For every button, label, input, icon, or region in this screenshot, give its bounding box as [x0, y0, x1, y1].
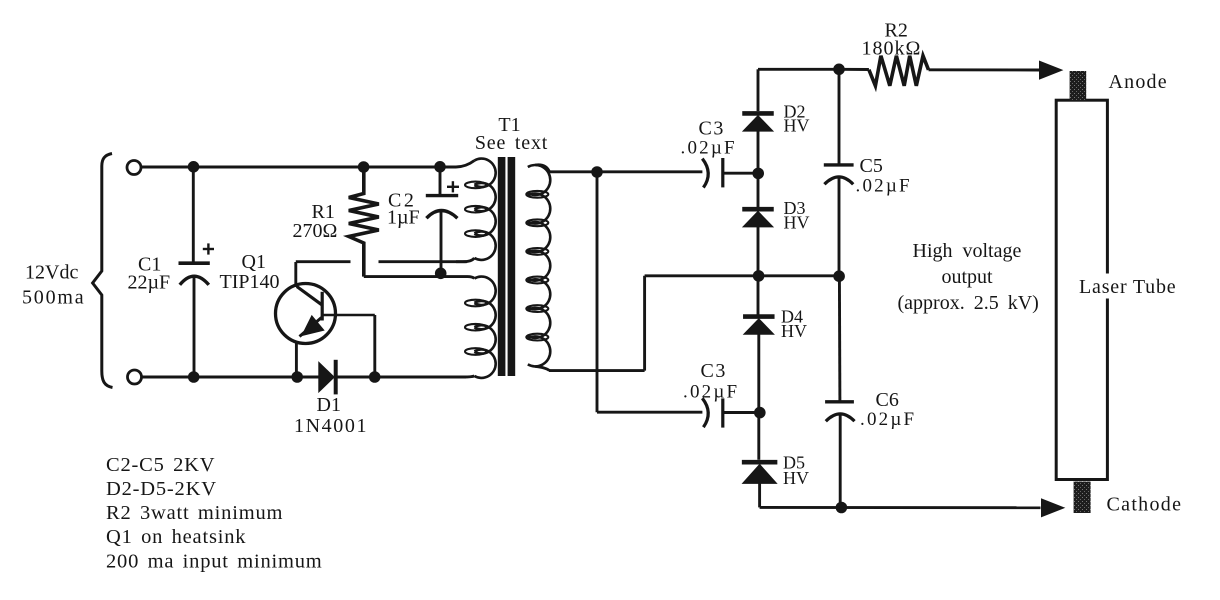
svg-text:1µF: 1µF: [387, 207, 420, 229]
svg-text:R2 3watt minimum: R2 3watt minimum: [106, 502, 283, 524]
svg-text:Q1: Q1: [242, 251, 266, 273]
svg-text:D2-D5-2KV: D2-D5-2KV: [106, 478, 217, 500]
svg-text:HV: HV: [784, 116, 810, 136]
svg-text:22µF: 22µF: [128, 272, 171, 294]
svg-text:output: output: [942, 266, 994, 288]
svg-text:Q1 on heatsink: Q1 on heatsink: [106, 526, 246, 548]
svg-text:TIP140: TIP140: [220, 271, 280, 293]
svg-text:180kΩ: 180kΩ: [862, 38, 922, 60]
svg-text:See text: See text: [475, 132, 548, 154]
svg-text:200 ma input minimum: 200 ma input minimum: [106, 551, 323, 573]
svg-text:Anode: Anode: [1109, 71, 1168, 93]
svg-text:(approx. 2.5 kV): (approx. 2.5 kV): [898, 292, 1039, 314]
svg-text:1N4001: 1N4001: [294, 415, 368, 437]
svg-text:500ma: 500ma: [22, 286, 85, 308]
svg-text:C5: C5: [860, 155, 883, 177]
svg-text:270Ω: 270Ω: [293, 220, 338, 242]
svg-text:HV: HV: [781, 321, 807, 341]
svg-text:D1: D1: [317, 394, 341, 416]
svg-text:C3: C3: [699, 117, 725, 139]
svg-text:Cathode: Cathode: [1107, 493, 1183, 515]
svg-text:12Vdc: 12Vdc: [25, 261, 78, 283]
svg-text:.02µF: .02µF: [860, 409, 916, 430]
svg-text:C2-C5 2KV: C2-C5 2KV: [106, 454, 215, 476]
svg-text:.02µF: .02µF: [683, 382, 739, 403]
svg-text:High voltage: High voltage: [913, 240, 1022, 262]
svg-text:.02µF: .02µF: [681, 138, 737, 159]
svg-text:HV: HV: [784, 213, 810, 233]
svg-text:HV: HV: [783, 468, 809, 488]
svg-text:.02µF: .02µF: [856, 175, 912, 196]
svg-text:Laser Tube: Laser Tube: [1079, 276, 1176, 298]
svg-text:C3: C3: [701, 360, 727, 382]
